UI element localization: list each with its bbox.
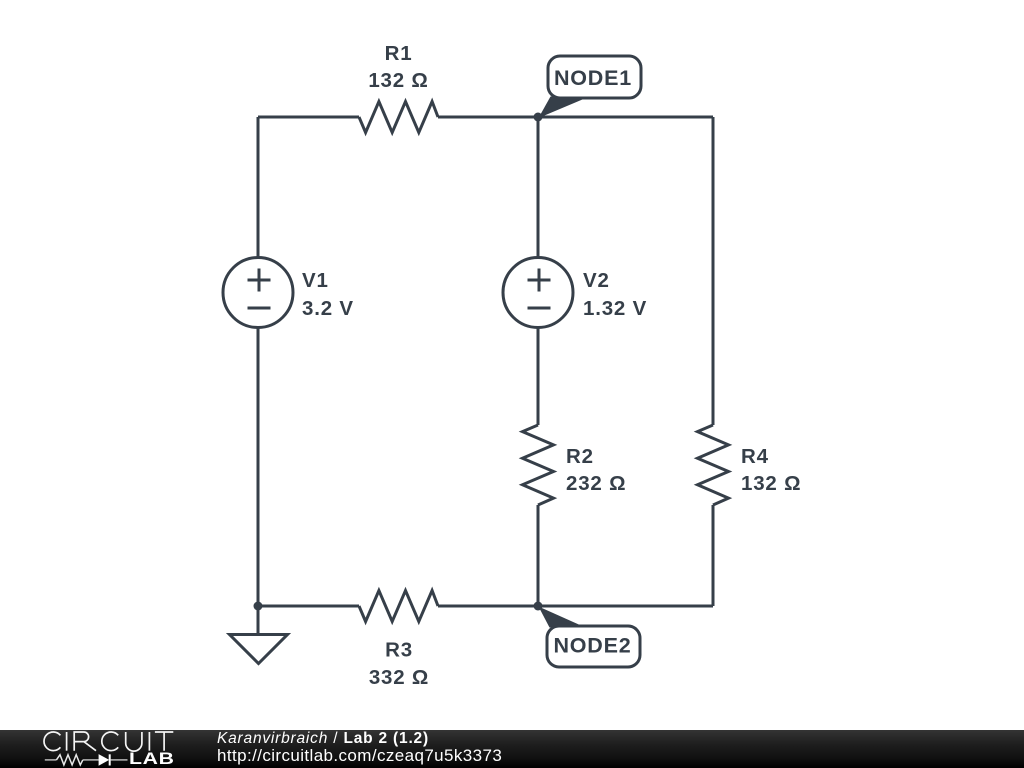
footer bar: [0, 730, 1024, 768]
logo letter I: [66, 732, 68, 751]
logo diode triangle: [99, 754, 110, 766]
node NODE2 callout pointer: [539, 607, 586, 628]
label R2 value: [566, 445, 626, 495]
footer url text: [217, 746, 502, 766]
label R3 value: [369, 639, 429, 690]
node NODE1 callout pointer: [539, 97, 590, 119]
svg-text:R3: R3: [385, 639, 413, 662]
svg-text:NODE2: NODE2: [553, 634, 631, 658]
wire top-right (R1 to NODE1 junction to R4): [438, 116, 713, 119]
wire left vertical lower (V1 bottom lead to ground net): [257, 328, 260, 607]
footer title text: [217, 732, 429, 747]
CircuitLab logo: [0, 730, 190, 768]
logo letter I: [148, 732, 150, 751]
wire right vertical lower (R4 bottom to NODE2): [712, 505, 715, 606]
resistor R4 zigzag: [698, 425, 729, 505]
wire top-left (NODE1 net, V1+ to R1): [258, 116, 359, 119]
node junction dot NODE2: [534, 602, 543, 611]
wire mid vertical middle (V2 bottom to R2 top): [537, 328, 540, 426]
wire bottom-left (ground to R3): [258, 605, 359, 608]
label R4 value: [741, 445, 801, 495]
resistor R1 zigzag: [359, 102, 438, 133]
svg-text:R2: R2: [566, 445, 594, 468]
svg-text:1.32 V: 1.32 V: [583, 297, 647, 320]
label R1 value: [368, 42, 428, 92]
wire mid vertical lower (R2 bottom to NODE2): [537, 505, 540, 606]
logo letter U: [126, 732, 142, 751]
wire bottom-right (R3 to NODE2 junction to R4): [438, 605, 713, 608]
label V2 value: [583, 269, 647, 320]
logo LAB text: [129, 751, 175, 767]
svg-text:V2: V2: [583, 269, 610, 292]
node NODE1 callout box: [548, 56, 641, 98]
resistor R2 zigzag: [523, 425, 554, 505]
voltage source V2 circle: [503, 258, 573, 328]
label V1 value: [302, 269, 354, 320]
logo letter T: [155, 732, 173, 751]
svg-text:3.2 V: 3.2 V: [302, 297, 354, 320]
wire mid vertical upper (NODE1 to V2 top): [537, 117, 540, 258]
ground symbol: [230, 606, 288, 664]
svg-text:V1: V1: [302, 269, 329, 292]
logo letter R: [74, 732, 96, 751]
logo letter C: [102, 732, 118, 751]
node junction dot NODE1: [534, 113, 543, 122]
svg-text:232 Ω: 232 Ω: [566, 472, 626, 495]
wire right vertical upper (NODE1 to R4 top): [712, 117, 715, 425]
svg-text:R4: R4: [741, 445, 769, 468]
logo letter C: [44, 732, 60, 751]
svg-text:NODE1: NODE1: [554, 66, 632, 90]
svg-text:132 Ω: 132 Ω: [368, 69, 428, 92]
node junction dot ground net: [254, 602, 263, 611]
node NODE2 callout box: [547, 626, 640, 667]
svg-text:332 Ω: 332 Ω: [369, 666, 429, 689]
svg-text:R1: R1: [385, 42, 413, 65]
wire left vertical upper (V1 top lead): [257, 117, 260, 258]
resistor R3 zigzag: [359, 591, 438, 622]
voltage source V1 circle: [223, 258, 293, 328]
svg-text:132 Ω: 132 Ω: [741, 472, 801, 495]
logo resistor-diode squiggle: [45, 754, 128, 765]
